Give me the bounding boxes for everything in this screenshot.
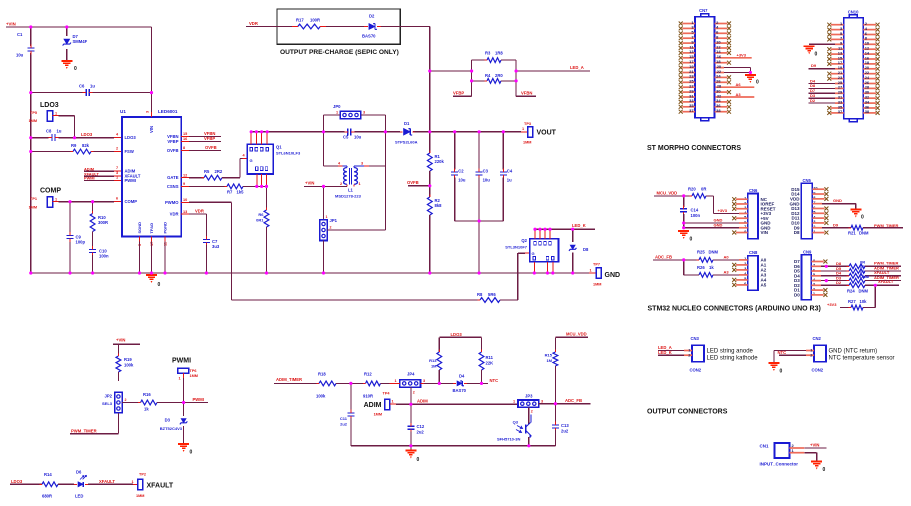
svg-text:1R8: 1R8 <box>495 51 503 56</box>
svg-text:TPAD: TPAD <box>149 223 154 234</box>
svg-text:0R: 0R <box>701 187 706 192</box>
svg-text:DNM: DNM <box>860 274 870 279</box>
svg-text:PGND: PGND <box>163 222 168 234</box>
svg-text:ADIM: ADIM <box>364 402 382 409</box>
svg-text:LED6001: LED6001 <box>158 109 178 114</box>
svg-text:CN1: CN1 <box>760 444 769 449</box>
svg-text:5R6: 5R6 <box>488 292 496 297</box>
svg-text:1: 1 <box>326 215 328 219</box>
svg-text:3: 3 <box>541 400 543 404</box>
svg-text:1: 1 <box>116 176 118 180</box>
svg-text:L1: L1 <box>348 188 354 193</box>
svg-text:STL6N10LF3: STL6N10LF3 <box>276 151 301 156</box>
svg-text:VDR: VDR <box>195 208 204 213</box>
svg-text:C5: C5 <box>343 135 349 140</box>
svg-text:1: 1 <box>55 197 57 201</box>
svg-text:JP0: JP0 <box>333 104 341 109</box>
svg-text:R20: R20 <box>688 187 696 192</box>
svg-text:LED_K: LED_K <box>572 223 586 228</box>
svg-text:0: 0 <box>815 51 818 57</box>
svg-text:A6: A6 <box>736 82 742 87</box>
svg-text:1u: 1u <box>57 129 62 134</box>
svg-text:R26: R26 <box>697 265 705 270</box>
svg-text:1: 1 <box>55 111 57 115</box>
svg-text:3: 3 <box>361 161 363 165</box>
svg-text:10u: 10u <box>354 135 362 140</box>
svg-text:ADIM: ADIM <box>417 399 428 404</box>
svg-text:TP5: TP5 <box>30 111 37 115</box>
svg-text:PWMI: PWMI <box>84 176 95 181</box>
svg-text:R27: R27 <box>848 299 856 304</box>
svg-text:2R0: 2R0 <box>495 73 503 78</box>
svg-text:3: 3 <box>116 171 118 175</box>
svg-text:A3: A3 <box>724 269 730 274</box>
svg-text:R18: R18 <box>318 372 326 377</box>
svg-text:COMP: COMP <box>40 188 61 195</box>
svg-text:BAS70: BAS70 <box>362 34 376 39</box>
svg-text:PWMI: PWMI <box>172 358 191 365</box>
svg-text:BAS70: BAS70 <box>453 388 467 393</box>
svg-text:NTC: NTC <box>490 378 499 383</box>
svg-text:R17: R17 <box>296 18 304 23</box>
svg-text:+VIN: +VIN <box>6 22 16 27</box>
svg-text:SEL3: SEL3 <box>102 401 113 406</box>
svg-text:+VIN: +VIN <box>305 181 314 186</box>
svg-text:13: 13 <box>183 210 187 214</box>
svg-text:PWM_TIMER: PWM_TIMER <box>874 223 899 228</box>
svg-text:2u2: 2u2 <box>417 430 425 435</box>
svg-text:1MM: 1MM <box>29 206 37 210</box>
svg-text:C12: C12 <box>417 424 425 429</box>
svg-text:R4: R4 <box>485 73 491 78</box>
svg-text:1: 1 <box>392 399 394 403</box>
svg-text:C2: C2 <box>458 169 464 174</box>
svg-text:1MM: 1MM <box>374 413 382 417</box>
svg-text:TP2: TP2 <box>139 473 146 477</box>
svg-text:CN10: CN10 <box>848 9 859 14</box>
svg-text:0: 0 <box>780 369 783 375</box>
svg-text:1: 1 <box>179 377 181 381</box>
svg-text:VFBP: VFBP <box>453 90 464 95</box>
svg-text:VFBP: VFBP <box>204 136 215 141</box>
svg-text:TP1: TP1 <box>30 197 37 201</box>
svg-text:R25: R25 <box>697 250 705 255</box>
svg-text:8: 8 <box>183 146 185 150</box>
svg-text:LED string kathode: LED string kathode <box>707 355 759 361</box>
svg-text:100p: 100p <box>76 240 86 245</box>
svg-text:CN7: CN7 <box>699 8 708 13</box>
svg-text:10u: 10u <box>483 178 491 183</box>
svg-text:0: 0 <box>74 66 77 72</box>
svg-text:C3: C3 <box>483 169 489 174</box>
svg-text:2: 2 <box>125 398 127 402</box>
svg-text:OUTPUT CONNECTORS: OUTPUT CONNECTORS <box>647 409 728 416</box>
svg-text:VOUT: VOUT <box>537 130 557 137</box>
svg-text:R9: R9 <box>71 143 77 148</box>
svg-text:100k: 100k <box>316 394 326 399</box>
svg-text:37: 37 <box>838 109 843 114</box>
svg-text:2: 2 <box>413 391 415 395</box>
svg-text:C11: C11 <box>340 416 348 421</box>
svg-text:9: 9 <box>183 182 185 186</box>
svg-text:FSW: FSW <box>125 149 134 154</box>
svg-text:0: 0 <box>158 282 161 288</box>
svg-text:300R: 300R <box>98 220 108 225</box>
svg-text:CN6: CN6 <box>749 188 758 193</box>
svg-text:1: 1 <box>336 111 338 115</box>
svg-text:ADC_FB: ADC_FB <box>655 254 672 259</box>
svg-text:LDO3: LDO3 <box>125 135 137 140</box>
svg-text:1MM: 1MM <box>136 494 144 498</box>
svg-text:A5: A5 <box>761 283 767 288</box>
svg-text:0: 0 <box>823 467 826 473</box>
svg-text:CSNS: CSNS <box>167 184 179 189</box>
svg-text:38: 38 <box>865 109 870 114</box>
svg-text:C13: C13 <box>561 423 569 428</box>
svg-text:NTC: NTC <box>778 350 787 355</box>
svg-text:JP2: JP2 <box>105 394 113 399</box>
svg-text:2u2: 2u2 <box>561 429 569 434</box>
svg-text:+VIN: +VIN <box>810 442 819 447</box>
svg-text:1: 1 <box>522 127 524 131</box>
svg-text:Q1: Q1 <box>276 145 282 150</box>
svg-text:D2: D2 <box>810 98 816 103</box>
svg-text:D8: D8 <box>794 230 800 235</box>
svg-text:1k: 1k <box>709 265 714 270</box>
svg-text:100R: 100R <box>310 18 320 23</box>
svg-text:VIN: VIN <box>149 126 154 133</box>
svg-text:TP4: TP4 <box>383 392 391 396</box>
svg-text:VIN: VIN <box>761 230 769 235</box>
svg-text:D4: D4 <box>459 374 465 379</box>
svg-text:CN2: CN2 <box>813 336 822 341</box>
svg-text:10u: 10u <box>458 178 466 183</box>
svg-text:GND: GND <box>833 198 842 203</box>
svg-text:37: 37 <box>689 108 694 113</box>
svg-text:R16: R16 <box>143 392 151 397</box>
svg-text:1MM: 1MM <box>190 374 198 378</box>
svg-text:OUTPUT PRE-CHARGE (SEPIC ONLY): OUTPUT PRE-CHARGE (SEPIC ONLY) <box>280 49 399 56</box>
svg-text:MSD1278-223: MSD1278-223 <box>335 194 362 199</box>
svg-text:XFAULT: XFAULT <box>878 279 894 284</box>
svg-text:LDO3: LDO3 <box>40 102 59 109</box>
svg-text:R3: R3 <box>485 51 491 56</box>
svg-text:SMM4F: SMM4F <box>73 39 88 44</box>
svg-text:GND (NTC return): GND (NTC return) <box>829 349 878 355</box>
svg-text:C8: C8 <box>46 129 52 134</box>
svg-text:LED string anode: LED string anode <box>707 349 754 355</box>
svg-text:CN3: CN3 <box>691 336 700 341</box>
svg-text:ADIM_TIMER: ADIM_TIMER <box>276 377 302 382</box>
svg-text:+3V3: +3V3 <box>737 53 747 58</box>
svg-text:0: 0 <box>756 80 759 86</box>
svg-text:+VIN: +VIN <box>116 338 125 343</box>
svg-text:XFAULT: XFAULT <box>99 479 115 484</box>
svg-text:+3V3: +3V3 <box>827 302 837 307</box>
svg-text:A0: A0 <box>724 254 730 259</box>
svg-text:0: 0 <box>190 450 193 456</box>
svg-text:STPS2L60A: STPS2L60A <box>395 140 418 145</box>
svg-text:LDO3: LDO3 <box>451 332 463 337</box>
svg-text:PWM_TIMER: PWM_TIMER <box>71 428 97 433</box>
svg-text:PWMI: PWMI <box>125 178 136 183</box>
svg-text:10k: 10k <box>860 299 868 304</box>
svg-text:8k8: 8k8 <box>435 203 443 208</box>
svg-text:22K: 22K <box>486 361 494 366</box>
svg-text:VDR: VDR <box>249 21 258 26</box>
svg-text:D1: D1 <box>404 121 410 126</box>
svg-text:R5: R5 <box>204 169 210 174</box>
svg-text:1MM: 1MM <box>29 119 37 123</box>
svg-text:+3V3: +3V3 <box>718 208 728 213</box>
svg-text:0R1: 0R1 <box>256 218 264 223</box>
svg-text:15: 15 <box>183 132 187 136</box>
svg-text:2u2: 2u2 <box>340 422 348 427</box>
svg-text:CN9: CN9 <box>803 249 812 254</box>
svg-text:R15: R15 <box>545 353 553 358</box>
svg-text:1: 1 <box>359 182 361 186</box>
svg-text:1: 1 <box>395 379 397 383</box>
svg-text:INPUT_Connector: INPUT_Connector <box>760 462 799 467</box>
svg-text:A3: A3 <box>736 92 742 97</box>
svg-text:38: 38 <box>716 108 721 113</box>
svg-text:2: 2 <box>531 410 533 414</box>
svg-text:PWMI: PWMI <box>193 397 204 402</box>
svg-text:10u: 10u <box>16 53 24 58</box>
svg-text:SGND: SGND <box>137 222 142 234</box>
svg-text:R11: R11 <box>486 355 494 360</box>
svg-text:R7: R7 <box>227 190 233 195</box>
svg-text:2R2: 2R2 <box>215 169 223 174</box>
svg-text:D9: D9 <box>833 223 839 228</box>
svg-text:1: 1 <box>132 480 134 484</box>
svg-text:1u: 1u <box>90 84 95 89</box>
svg-text:MCU_VDD: MCU_VDD <box>566 331 587 336</box>
svg-text:3: 3 <box>423 379 425 383</box>
svg-text:C14: C14 <box>691 208 699 213</box>
svg-text:100k: 100k <box>124 363 134 368</box>
svg-text:CON2: CON2 <box>690 368 702 373</box>
svg-text:1M: 1M <box>546 358 552 363</box>
svg-text:LED: LED <box>75 494 83 499</box>
svg-text:JP1: JP1 <box>330 218 338 223</box>
svg-text:DNM: DNM <box>859 288 869 293</box>
svg-text:COMP: COMP <box>125 199 138 204</box>
svg-text:R19: R19 <box>124 357 132 362</box>
svg-text:D8: D8 <box>583 247 589 252</box>
svg-text:1MM: 1MM <box>523 141 531 145</box>
svg-text:DNM: DNM <box>709 250 719 255</box>
svg-text:910R: 910R <box>363 394 373 399</box>
svg-text:680R: 680R <box>42 494 52 499</box>
svg-text:CON2: CON2 <box>812 368 824 373</box>
svg-text:2: 2 <box>116 147 118 151</box>
svg-text:OVFB: OVFB <box>167 148 179 153</box>
svg-text:0: 0 <box>417 457 420 463</box>
svg-text:VDR: VDR <box>170 212 179 217</box>
svg-text:0: 0 <box>690 237 693 243</box>
svg-text:1: 1 <box>513 400 515 404</box>
svg-text:R13: R13 <box>429 358 437 363</box>
svg-text:7: 7 <box>116 166 118 170</box>
svg-text:D9: D9 <box>811 63 817 68</box>
svg-text:1k: 1k <box>144 407 149 412</box>
svg-text:0: 0 <box>861 215 864 221</box>
svg-text:JP4: JP4 <box>407 372 415 377</box>
svg-text:OVFB: OVFB <box>205 145 217 150</box>
svg-text:BZT52C4V3: BZT52C4V3 <box>160 426 183 431</box>
svg-text:GND: GND <box>714 222 723 227</box>
svg-text:1: 1 <box>590 268 592 272</box>
svg-text:D0: D0 <box>794 293 800 298</box>
svg-text:G: G <box>250 158 253 163</box>
svg-text:ST MORPHO CONNECTORS: ST MORPHO CONNECTORS <box>647 145 741 152</box>
svg-text:1u: 1u <box>507 178 512 183</box>
svg-text:12: 12 <box>183 173 187 177</box>
svg-text:2: 2 <box>330 226 332 230</box>
svg-text:MCU_VDD: MCU_VDD <box>657 191 678 196</box>
svg-text:100n: 100n <box>99 254 109 259</box>
svg-text:SFH5710-3N: SFH5710-3N <box>497 437 520 442</box>
svg-text:TP3: TP3 <box>524 122 531 126</box>
svg-text:JP3: JP3 <box>525 394 533 399</box>
svg-text:3: 3 <box>363 111 365 115</box>
svg-text:LDO3: LDO3 <box>11 479 23 484</box>
svg-text:D3: D3 <box>165 418 171 423</box>
svg-text:NTC temperature sensor: NTC temperature sensor <box>829 355 895 361</box>
svg-text:TP6: TP6 <box>190 369 197 373</box>
svg-text:6: 6 <box>116 197 118 201</box>
svg-text:GND: GND <box>605 272 621 279</box>
svg-text:R14: R14 <box>44 472 52 477</box>
svg-text:220k: 220k <box>435 159 445 164</box>
svg-text:Q2: Q2 <box>521 238 527 243</box>
svg-text:LED_K: LED_K <box>658 350 672 355</box>
svg-text:1MM: 1MM <box>593 283 601 287</box>
svg-text:TP7: TP7 <box>593 263 600 267</box>
svg-text:16: 16 <box>183 137 187 141</box>
svg-text:ADC_FB: ADC_FB <box>565 398 582 403</box>
svg-text:R24: R24 <box>847 288 855 293</box>
svg-text:D6: D6 <box>76 470 82 475</box>
svg-text:C4: C4 <box>507 169 513 174</box>
svg-text:PWMO: PWMO <box>165 200 179 205</box>
svg-text:CN5: CN5 <box>803 178 812 183</box>
svg-text:LED_A: LED_A <box>570 65 584 70</box>
svg-text:OVFB: OVFB <box>407 180 419 185</box>
svg-text:Q3: Q3 <box>513 420 519 425</box>
svg-text:XFAULT: XFAULT <box>147 482 174 489</box>
svg-text:STL3N10F7: STL3N10F7 <box>505 245 528 250</box>
svg-text:82k: 82k <box>82 143 90 148</box>
svg-text:R21: R21 <box>848 231 856 236</box>
svg-text:10: 10 <box>183 198 187 202</box>
svg-text:3: 3 <box>146 111 150 113</box>
svg-text:100n: 100n <box>691 213 701 218</box>
svg-text:VFBN: VFBN <box>521 90 532 95</box>
svg-text:D2: D2 <box>836 280 842 285</box>
svg-text:DNM: DNM <box>859 231 869 236</box>
svg-text:LDO3: LDO3 <box>81 132 93 137</box>
svg-text:G: G <box>532 251 535 256</box>
svg-text:GATE: GATE <box>167 175 179 180</box>
svg-text:R12: R12 <box>364 372 372 377</box>
svg-text:C1: C1 <box>17 32 23 37</box>
svg-text:C6: C6 <box>79 84 85 89</box>
svg-text:3u3: 3u3 <box>212 244 220 249</box>
svg-text:R6: R6 <box>258 212 264 217</box>
svg-text:CN8: CN8 <box>749 250 758 255</box>
svg-text:VFBP: VFBP <box>167 139 178 144</box>
svg-text:2: 2 <box>340 182 342 186</box>
svg-text:1M: 1M <box>431 364 437 369</box>
svg-text:STM32 NUCLEO CONNECTORS (ARDUI: STM32 NUCLEO CONNECTORS (ARDUINO UNO R3) <box>648 306 821 313</box>
svg-text:U1: U1 <box>120 109 126 114</box>
svg-text:1k5: 1k5 <box>237 190 245 195</box>
svg-text:D2: D2 <box>369 14 375 19</box>
svg-text:R8: R8 <box>477 292 483 297</box>
